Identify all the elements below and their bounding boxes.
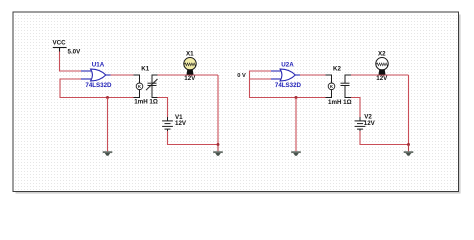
junction node (lamp/battery ground net) [217, 143, 220, 146]
wire U1A input 2 loop to ground net [60, 79, 134, 98]
svg-text:74LS32D: 74LS32D [275, 82, 302, 89]
wire switch to battery V1 [158, 98, 168, 118]
svg-text:U1A: U1A [92, 61, 105, 68]
relay contact switch K2 [341, 75, 352, 98]
svg-text:12V: 12V [364, 120, 376, 127]
relay coil K2 [326, 75, 335, 98]
wire switch to lamp rail (right) [351, 74, 409, 76]
svg-text:12V: 12V [184, 75, 196, 82]
svg-text:X2: X2 [378, 51, 386, 58]
wire lamp to ground corner [217, 75, 219, 145]
power VCC [53, 48, 67, 52]
svg-text:1mH 1Ω: 1mH 1Ω [134, 98, 158, 105]
wire VCC to U1A input 1 [60, 52, 82, 72]
junction node (gate net / ground, right) [295, 96, 298, 99]
sheet shadow [16, 15, 461, 194]
wire battery V2 to ground net [360, 131, 409, 145]
wire junction to ground [107, 98, 109, 152]
wire switch to battery V2 [351, 98, 360, 118]
relay contact switch K1 [146, 75, 158, 98]
ground (right circuit, lamp net) [404, 145, 414, 156]
svg-text:0 V: 0 V [237, 73, 246, 79]
wire junction to ground (right) [295, 98, 297, 152]
battery V2 [355, 117, 366, 131]
junction node (lamp/battery ground net, right) [407, 143, 410, 146]
wire switch to lamp rail [158, 74, 219, 76]
svg-text:5.0V: 5.0V [68, 48, 82, 55]
wire battery V1 to ground net [168, 131, 219, 145]
wire U2A output to relay coil K2 [300, 74, 326, 76]
svg-text:X1: X1 [186, 51, 194, 58]
svg-text:1mH 1Ω: 1mH 1Ω [328, 99, 352, 106]
svg-text:12V: 12V [376, 75, 388, 82]
ground (left circuit, gate net) [103, 152, 113, 156]
svg-text:12V: 12V [175, 120, 187, 127]
svg-text:K1: K1 [141, 66, 149, 73]
junction node (gate input net / ground) [106, 96, 109, 99]
wire inputs tie (U2A) [250, 71, 326, 98]
wire to U2A input 2 [250, 78, 272, 80]
relay coil K1 [134, 75, 143, 98]
lamp X1 (lit) [184, 58, 196, 75]
ground (right circuit, gate net) [291, 152, 301, 156]
op-amp / OR gate U1A 74LS32D [81, 61, 112, 89]
svg-text:U2A: U2A [281, 61, 294, 68]
svg-text:74LS32D: 74LS32D [85, 82, 112, 89]
svg-text:VCC: VCC [53, 40, 67, 47]
op-amp / OR gate U2A 74LS32D [271, 61, 302, 89]
lamp X2 (off) [376, 58, 388, 75]
battery V1 [162, 117, 173, 131]
ground (left circuit, lamp net) [213, 145, 223, 156]
sheet border frame [13, 12, 459, 192]
wire lamp to ground corner (right) [408, 75, 410, 145]
svg-text:K2: K2 [333, 66, 341, 73]
wire U1A output to relay coil K1 [111, 74, 134, 76]
